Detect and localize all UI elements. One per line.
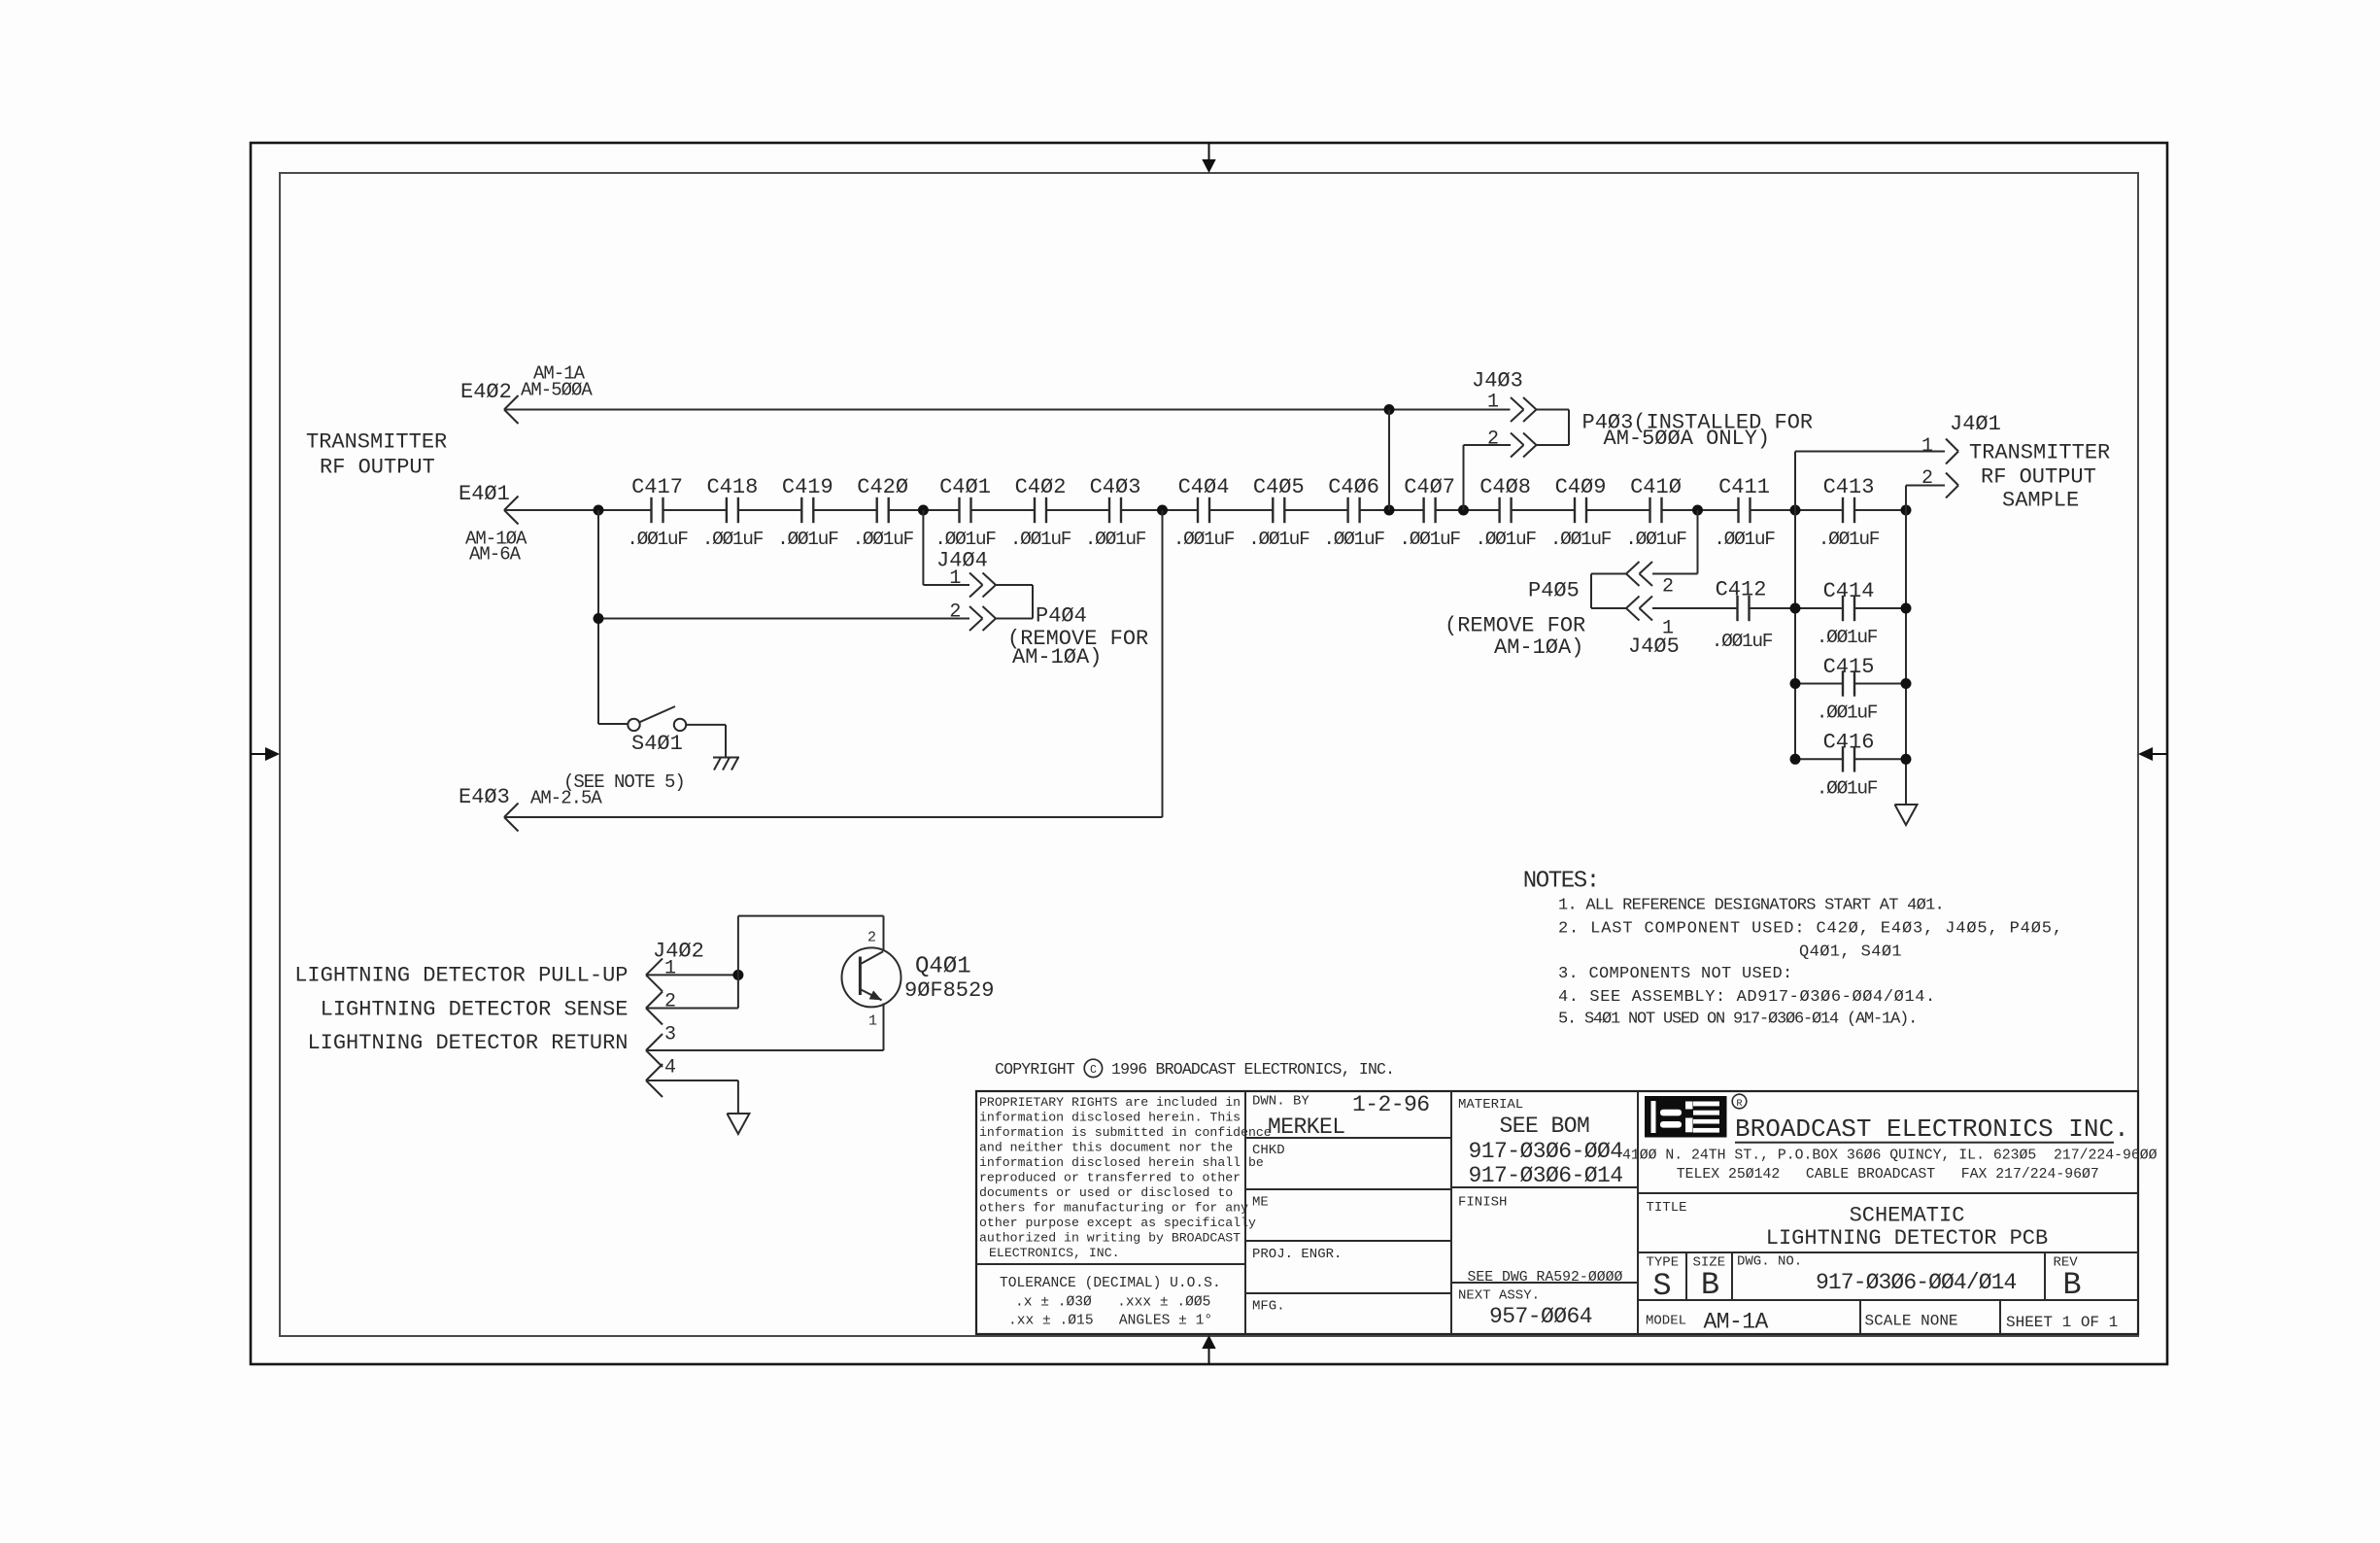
junction: J404 pin 2 on x=616 vertical [594,613,604,624]
svg-text:AM-1A: AM-1A [1704,1310,1769,1335]
title block [976,1091,2158,1335]
svg-text:LIGHTNING DETECTOR PULL-UP: LIGHTNING DETECTOR PULL-UP [294,964,628,988]
svg-text:C41Ø: C41Ø [1630,475,1682,499]
ground (J402 pin 4) [727,1114,749,1134]
svg-text:P4Ø5: P4Ø5 [1528,579,1580,603]
capacitor C401 .001uF [935,475,996,550]
connector P405 pin 1 (chevrons, wire y=626) [1626,597,1674,640]
svg-text:C4Ø8: C4Ø8 [1479,475,1531,499]
svg-text:C4Ø2: C4Ø2 [1015,475,1067,499]
svg-text:FINISH: FINISH [1458,1195,1507,1211]
wire: E403 net (y=841) [504,816,1163,818]
svg-text:41ØØ N. 24TH ST., P.O.BOX 36Ø6: 41ØØ N. 24TH ST., P.O.BOX 36Ø6 QUINCY, I… [1622,1149,2158,1164]
notes list [1523,869,2063,1029]
svg-text:E4Ø3: E4Ø3 [459,785,510,809]
svg-text:AM-1ØA): AM-1ØA) [1494,635,1583,660]
wire: vertical bus to E403 net (x=1196.5) [1162,510,1164,817]
svg-text:.ØØ1uF: .ØØ1uF [935,529,996,550]
svg-text:4: 4 [664,1057,676,1080]
svg-text:TRANSMITTER: TRANSMITTER [306,430,447,455]
connector J401 pin 2 (open arrow) [1921,467,1958,498]
node E401 (terminal arrow, labels AM-10A / AM-6A) [459,482,527,566]
svg-text:.ØØ1uF: .ØØ1uF [1550,529,1612,550]
svg-text:C42Ø: C42Ø [857,475,908,499]
svg-text:E4Ø2: E4Ø2 [460,380,512,404]
connector J405 label [1628,634,1680,659]
svg-text:others for manufacturing or fo: others for manufacturing or for any [979,1200,1248,1215]
svg-text:TRANSMITTER: TRANSMITTER [1969,441,2110,465]
svg-text:authorized in writing by BROAD: authorized in writing by BROADCAST [979,1230,1241,1245]
connector P404 (mating bracket + label) [996,585,1148,669]
svg-text:.xx ± .Ø15 ANGLES ± 1°: .xx ± .Ø15 ANGLES ± 1° [1008,1314,1212,1329]
svg-text:(REMOVE FOR: (REMOVE FOR [1445,614,1585,638]
svg-text:.ØØ1uF: .ØØ1uF [1817,778,1878,800]
capacitor C409 .001uF [1550,475,1612,550]
wire: vertical bus to J404 pin 1 (x=950) [922,510,924,585]
wire: P405 pin 1 to left rail (y=626) [1652,607,1795,609]
svg-text:C4Ø4: C4Ø4 [1178,475,1230,499]
svg-text:NOTES:: NOTES: [1523,869,1599,895]
junction: left rail / C416 [1790,754,1801,765]
svg-text:1. ALL REFERENCE DESIGNATORS S: 1. ALL REFERENCE DESIGNATORS START AT 4Ø… [1558,897,1944,915]
svg-text:SEE DWG RA592-ØØØØ: SEE DWG RA592-ØØØØ [1468,1270,1623,1286]
junction: right rail / C415 [1901,678,1912,689]
svg-text:.x ± .Ø3Ø .xxx ± .ØØ5: .x ± .Ø3Ø .xxx ± .ØØ5 [1015,1295,1210,1311]
svg-text:C418: C418 [706,475,758,499]
svg-text:AM-5ØØA ONLY): AM-5ØØA ONLY) [1604,427,1771,451]
svg-text:.ØØ1uF: .ØØ1uF [702,529,764,550]
svg-text:2: 2 [1921,467,1933,490]
svg-text:C4Ø6: C4Ø6 [1328,475,1379,499]
svg-text:2: 2 [1662,576,1674,599]
svg-text:917-Ø3Ø6-ØØ4: 917-Ø3Ø6-ØØ4 [1469,1139,1623,1164]
svg-text:DWG. NO.: DWG. NO. [1737,1254,1802,1270]
node E403 (terminal arrow, label AM-2.5A) [459,785,602,832]
svg-text:SCHEMATIC: SCHEMATIC [1850,1204,1965,1228]
svg-text:.ØØ1uF: .ØØ1uF [1399,529,1460,550]
svg-text:information is submitted in co: information is submitted in confidence [979,1125,1272,1140]
connector J404 pin 2 (chevrons, wire y=636.5) [598,601,996,632]
svg-text:4. SEE ASSEMBLY: AD917-Ø3Ø6-ØØ: 4. SEE ASSEMBLY: AD917-Ø3Ø6-ØØ4/Ø14. [1558,988,1936,1007]
svg-text:.ØØ1uF: .ØØ1uF [1817,627,1878,648]
svg-text:PROJ. ENGR.: PROJ. ENGR. [1252,1247,1342,1262]
wire: Q401 emitter to J402 pin 3 [883,1004,885,1051]
svg-text:.ØØ1uF: .ØØ1uF [1173,529,1235,550]
svg-text:RF OUTPUT: RF OUTPUT [320,456,435,480]
capacitor C420 .001uF [852,475,913,550]
wire: E402 net (top horizontal from E402 arrow to J403 pin 1) [504,409,1511,411]
copyright line [995,1059,1394,1079]
svg-text:R: R [1736,1098,1743,1110]
label: TRANSMITTER RF OUTPUT (left side) [306,430,447,480]
connector J403 label [1472,369,1523,394]
connector J401 label + TRANSMITTER RF OUTPUT SAMPLE [1950,412,2110,513]
connector J402 pin 4 (arrow + wire to ground) [646,1057,738,1114]
svg-text:J4Ø1: J4Ø1 [1950,412,2001,436]
svg-text:AM-6A: AM-6A [469,544,522,566]
svg-text:C411: C411 [1718,475,1770,499]
svg-text:C4Ø5: C4Ø5 [1253,475,1305,499]
svg-text:.ØØ1uF: .ØØ1uF [1010,529,1071,550]
connector J403 pin 1 (chevrons on E402 net) [1487,392,1537,423]
capacitor C418 .001uF [702,475,764,550]
svg-text:.ØØ1uF: .ØØ1uF [1817,703,1878,724]
svg-text:C413: C413 [1823,475,1875,499]
capacitor C419 .001uF [777,475,838,550]
svg-text:C417: C417 [631,475,683,499]
wire: left sample rail (x=1848) and J401 pin 1 lead [1795,452,1945,760]
svg-text:B: B [2062,1267,2081,1303]
svg-text:9ØF8529: 9ØF8529 [904,978,994,1003]
capacitor C416 .001uF [1817,731,1878,800]
svg-text:AM-5ØØA: AM-5ØØA [521,380,593,401]
svg-text:E4Ø1: E4Ø1 [459,482,510,506]
svg-text:.ØØ1uF: .ØØ1uF [1625,529,1686,550]
connector J402 pin 1 (arrow + wire, LIGHTNING DETECTOR PULL-UP) [294,958,738,992]
svg-text:Q4Ø1, S4Ø1: Q4Ø1, S4Ø1 [1799,943,1902,961]
svg-text:J4Ø5: J4Ø5 [1628,634,1680,659]
svg-text:3: 3 [664,1024,676,1046]
svg-text:S4Ø1: S4Ø1 [631,732,683,756]
svg-text:ELECTRONICS, INC.: ELECTRONICS, INC. [989,1246,1120,1260]
junction: J402 pin 1 / base feed [732,970,743,980]
junction: E402 wire above C407 [1384,404,1395,415]
junction: bus node C411/C413 left rail [1790,505,1801,516]
junction: bus node C406/C407/E402 [1384,505,1395,516]
junction: bus node C407/C408/J403.2 [1458,505,1469,516]
svg-text:C4Ø9: C4Ø9 [1555,475,1607,499]
svg-text:1996 BROADCAST ELECTRONICS, IN: 1996 BROADCAST ELECTRONICS, INC. [1111,1060,1394,1079]
svg-text:C414: C414 [1823,579,1875,603]
svg-text:917-Ø3Ø6-Ø14: 917-Ø3Ø6-Ø14 [1469,1163,1623,1188]
svg-text:.ØØ1uF: .ØØ1uF [1085,529,1146,550]
svg-text:C4Ø1: C4Ø1 [939,475,991,499]
svg-text:SCALE NONE: SCALE NONE [1865,1313,1958,1330]
capacitor C402 .001uF [1010,475,1071,550]
svg-text:.ØØ1uF: .ØØ1uF [777,529,838,550]
capacitor C405 .001uF [1248,475,1309,550]
svg-text:C416: C416 [1823,731,1875,755]
svg-text:C4Ø3: C4Ø3 [1090,475,1141,499]
svg-text:ME: ME [1252,1195,1269,1211]
svg-text:RF OUTPUT: RF OUTPUT [1981,465,2096,490]
svg-text:TELEX 25Ø142 CABLE BROADCAST: TELEX 25Ø142 CABLE BROADCAST FAX 217/224… [1677,1167,2099,1183]
junction: left rail / C415 [1790,678,1801,689]
wire: main RF bus (y=525) [504,509,1906,511]
connector J404 label [936,549,988,573]
svg-text:information disclosed herein s: information disclosed herein shall be [979,1155,1264,1170]
svg-text:LIGHTNING DETECTOR RETURN: LIGHTNING DETECTOR RETURN [307,1031,628,1055]
connector J402 pin 3 (arrow + wire, LIGHTNING DETECTOR RETURN) [307,1024,883,1068]
svg-text:C: C [1090,1064,1097,1077]
svg-text:reproduced or transferred to o: reproduced or transferred to other [979,1170,1241,1184]
capacitor C406 .001uF [1323,475,1384,550]
svg-text:C412: C412 [1716,578,1767,602]
svg-text:SAMPLE: SAMPLE [2002,489,2079,513]
wire: S401 to chassis ground [725,725,727,757]
svg-text:BROADCAST ELECTRONICS INC.: BROADCAST ELECTRONICS INC. [1735,1114,2129,1144]
svg-text:.ØØ1uF: .ØØ1uF [1248,529,1309,550]
svg-text:DWN. BY: DWN. BY [1252,1094,1309,1110]
svg-text:MFG.: MFG. [1252,1299,1285,1315]
junction: right rail / C414 [1901,603,1912,614]
chassis ground (at S401) [713,758,739,771]
connector P405 pin 2 (chevrons, wire y=590.5) [1626,562,1698,599]
svg-text:documents or used or disclosed: documents or used or disclosed to [979,1185,1233,1200]
svg-text:Q4Ø1: Q4Ø1 [915,954,971,980]
transistor Q401 (NPN, 90F8529) [842,930,995,1030]
svg-text:SHEET 1 OF 1: SHEET 1 OF 1 [2006,1314,2118,1331]
wire: vertical bus to S401 branch (x=616) [597,510,599,724]
svg-text:917-Ø3Ø6-ØØ4/Ø14: 917-Ø3Ø6-ØØ4/Ø14 [1816,1270,2017,1295]
svg-text:.ØØ1uF: .ØØ1uF [1714,529,1775,550]
svg-text:1: 1 [1921,435,1933,458]
wires: C414/C415/C416 rows between rails [1795,608,1906,759]
node E402 (terminal arrow, labels AM-1A / AM-500A) [460,363,593,425]
svg-text:3. COMPONENTS NOT USED:: 3. COMPONENTS NOT USED: [1558,965,1793,983]
svg-text:P4Ø4: P4Ø4 [1036,604,1087,629]
capacitor C417 .001uF [627,475,688,550]
svg-text:AM-1ØA): AM-1ØA) [1012,645,1102,669]
svg-text:5. S4Ø1 NOT USED ON 917-Ø3Ø6-Ø: 5. S4Ø1 NOT USED ON 917-Ø3Ø6-Ø14 (AM-1A)… [1558,1011,1917,1029]
capacitor C415 .001uF [1817,655,1878,724]
svg-text:1-2-96: 1-2-96 [1352,1092,1430,1117]
svg-text:2: 2 [867,930,876,946]
capacitor C411 .001uF [1714,475,1775,550]
svg-text:1: 1 [1487,392,1499,414]
svg-text:B: B [1701,1267,1719,1303]
svg-text:COPYRIGHT: COPYRIGHT [995,1060,1075,1079]
svg-text:LIGHTNING DETECTOR SENSE: LIGHTNING DETECTOR SENSE [321,998,629,1022]
svg-text:SEE BOM: SEE BOM [1500,1114,1590,1139]
svg-text:CHKD: CHKD [1252,1143,1285,1158]
svg-text:.ØØ1uF: .ØØ1uF [852,529,913,550]
capacitor C414 .001uF [1817,579,1878,648]
svg-text:957-ØØ64: 957-ØØ64 [1489,1304,1592,1329]
connector J401 pin 1 (open arrow) [1921,435,1958,464]
svg-text:2: 2 [949,601,961,624]
junction: bus node E401/C417 [594,505,604,516]
svg-text:MODEL: MODEL [1646,1314,1686,1329]
junction: right rail / C416 [1901,754,1912,765]
wire: right sample rail (x=1962) and J401 pin 2 lead [1906,486,1945,806]
capacitor C413 .001uF [1819,475,1880,550]
junction: bus node C420/C401/J404 [918,505,929,516]
svg-text:2. LAST COMPONENT USED: C42Ø,: 2. LAST COMPONENT USED: C42Ø, E4Ø3, J4Ø5… [1558,920,2063,939]
svg-text:MERKEL: MERKEL [1268,1114,1345,1140]
wire: J402 pins 1-2 to Q401 collector loop [738,916,884,1009]
svg-text:TITLE: TITLE [1647,1200,1687,1216]
ground (signal ground below right rail) [1895,805,1918,825]
svg-text:C4Ø7: C4Ø7 [1404,475,1455,499]
svg-text:other purpose except as specif: other purpose except as specifically [979,1216,1256,1230]
wire: vertical J403 pin 2 to bus (x=1506.5) [1463,445,1465,510]
svg-text:.ØØ1uF: .ØØ1uF [1819,529,1880,550]
svg-text:and neither this document nor: and neither this document nor the [979,1140,1233,1154]
switch S401 (SPST to chassis ground) [563,706,726,793]
connector P403 (mating bracket + label) [1537,410,1814,452]
svg-text:1: 1 [664,958,676,980]
svg-text:2: 2 [1487,429,1499,451]
junction: bus node C403/C404/E403 [1157,505,1168,516]
junction: bus node C413 right rail [1901,505,1912,516]
svg-text:NEXT ASSY.: NEXT ASSY. [1458,1288,1540,1304]
capacitor C407 .001uF [1399,475,1460,550]
capacitor C404 .001uF [1173,475,1235,550]
svg-text:1: 1 [868,1013,877,1030]
svg-text:MATERIAL: MATERIAL [1458,1097,1523,1113]
svg-text:.ØØ1uF: .ØØ1uF [1712,631,1773,652]
svg-text:information disclosed herein.: information disclosed herein. This [979,1110,1241,1124]
svg-text:J4Ø4: J4Ø4 [936,549,988,573]
connector P405 (bracket + labels) [1445,574,1626,661]
connector J403 pin 2 (chevrons, wire y=458) [1464,429,1537,458]
svg-text:TOLERANCE (DECIMAL) U.O.S.: TOLERANCE (DECIMAL) U.O.S. [1000,1276,1221,1291]
svg-text:.ØØ1uF: .ØØ1uF [1323,529,1384,550]
svg-text:.ØØ1uF: .ØØ1uF [1475,529,1536,550]
svg-text:C415: C415 [1823,655,1875,679]
svg-text:.ØØ1uF: .ØØ1uF [627,529,688,550]
capacitor C408 .001uF [1475,475,1536,550]
svg-text:2: 2 [664,991,676,1013]
svg-text:J4Ø3: J4Ø3 [1472,369,1523,394]
svg-text:LIGHTNING DETECTOR PCB: LIGHTNING DETECTOR PCB [1766,1226,2048,1251]
wire: vertical from E402 net down to bus (x=1430) [1388,410,1390,511]
junction: bus node C410/C411/P405.2 [1692,505,1703,516]
svg-text:C419: C419 [782,475,833,499]
svg-text:S: S [1652,1268,1671,1304]
connector J404 pin 1 (chevrons, wire y=602) [923,567,996,598]
wire: vertical bus to P405 pin 2 (x=1747.5) [1697,510,1699,574]
capacitor C412 .001uF [1712,578,1773,653]
capacitor C403 .001uF [1085,475,1146,550]
svg-text:PROPRIETARY RIGHTS are include: PROPRIETARY RIGHTS are included in [979,1095,1241,1110]
junction: left rail / C414 [1790,603,1801,614]
capacitor C410 .001uF [1625,475,1686,550]
connector J402 label [653,940,704,964]
connector J402 pin 2 (arrow + wire, LIGHTNING DETECTOR SENSE) [321,991,738,1025]
svg-text:AM-2.5A: AM-2.5A [530,788,602,809]
